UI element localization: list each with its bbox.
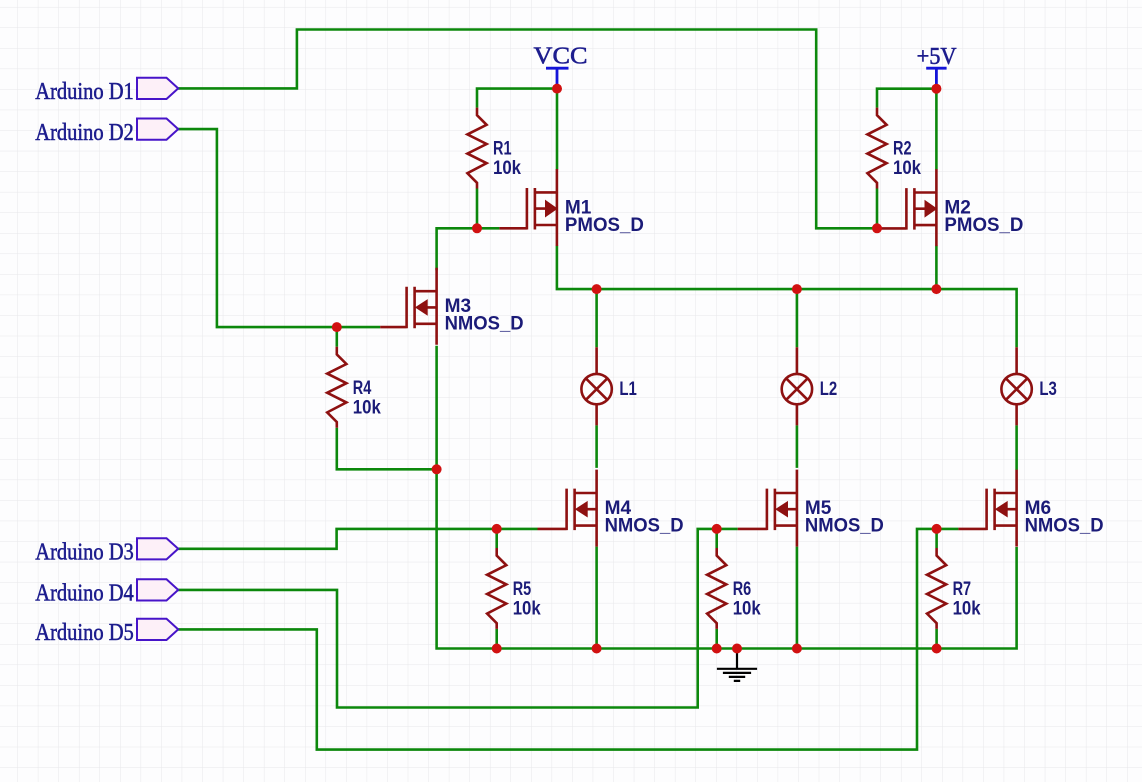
svg-text:Arduino D2: Arduino D2 (35, 120, 134, 146)
svg-text:+5V: +5V (917, 44, 958, 70)
svg-text:L3: L3 (1039, 379, 1057, 400)
svg-text:Arduino D5: Arduino D5 (35, 620, 134, 646)
svg-text:L2: L2 (820, 379, 838, 400)
svg-text:PMOS_D: PMOS_D (565, 215, 644, 236)
svg-text:10k: 10k (513, 599, 541, 620)
svg-text:Arduino D3: Arduino D3 (35, 540, 134, 566)
svg-text:NMOS_D: NMOS_D (605, 516, 684, 537)
svg-text:R2: R2 (893, 139, 912, 160)
svg-text:R5: R5 (513, 579, 532, 600)
svg-text:NMOS_D: NMOS_D (445, 314, 524, 335)
svg-text:NMOS_D: NMOS_D (805, 516, 884, 537)
svg-text:10k: 10k (733, 599, 761, 620)
svg-text:Arduino D1: Arduino D1 (35, 79, 134, 105)
svg-text:VCC: VCC (534, 44, 588, 70)
svg-text:10k: 10k (953, 599, 981, 620)
svg-text:10k: 10k (893, 158, 921, 179)
svg-text:R1: R1 (493, 139, 512, 160)
svg-text:10k: 10k (493, 158, 521, 179)
svg-text:R7: R7 (953, 579, 972, 600)
svg-text:R6: R6 (733, 579, 752, 600)
svg-text:NMOS_D: NMOS_D (1025, 516, 1104, 537)
svg-text:PMOS_D: PMOS_D (944, 215, 1023, 236)
svg-text:10k: 10k (353, 397, 381, 418)
svg-text:Arduino D4: Arduino D4 (35, 581, 134, 607)
svg-text:R4: R4 (353, 378, 372, 399)
svg-text:L1: L1 (619, 379, 637, 400)
